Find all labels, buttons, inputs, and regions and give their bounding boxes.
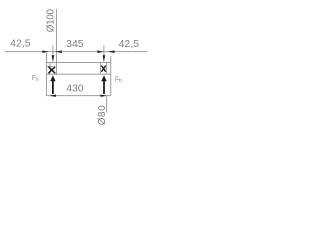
svg-text:345: 345: [66, 38, 84, 50]
force label Fb: [115, 77, 122, 84]
force arrow Fb (up): [101, 75, 106, 94]
bearing A cross X: [49, 67, 55, 73]
arrowhead 42,5-left pointing right: [42, 50, 48, 53]
svg-text:b: b: [119, 78, 122, 84]
dimension text 42,5 right: [119, 38, 140, 50]
bearing B cross X: [102, 66, 106, 71]
shaft right end face: [110, 56, 112, 96]
dimension text 42,5 left: [10, 38, 31, 50]
top dimension line: [5, 51, 148, 53]
label Ø100 (rotated vertical): [45, 9, 56, 33]
arrowhead 345 left pointing left: [55, 50, 62, 53]
force label Fa: [32, 75, 39, 82]
bearing A box left side: [49, 63, 51, 75]
svg-text:a: a: [36, 76, 39, 82]
extension line right bearing centre with down arrow: [103, 46, 106, 63]
bottom dimension line 430: [47, 95, 111, 97]
shaft top line: [47, 62, 111, 64]
dimension text 430: [66, 84, 83, 95]
extension line Ø80 leader below: [106, 96, 108, 113]
shaft bottom line: [47, 73, 111, 75]
extension line Ø100 leader / left bearing box right side: [55, 9, 57, 74]
svg-text:Ø80: Ø80: [97, 105, 108, 125]
svg-text:42,5: 42,5: [119, 38, 140, 50]
shaft shoulder stub left: [47, 66, 54, 68]
arrowhead 430 right pointing right: [100, 95, 107, 97]
label Ø80 (rotated vertical): [97, 105, 108, 125]
shaft left end face: [46, 53, 48, 96]
force arrow Fa (up): [50, 75, 55, 94]
svg-text:42,5: 42,5: [10, 38, 31, 50]
dimension text 345: [66, 38, 84, 50]
svg-text:Ø100: Ø100: [45, 9, 56, 33]
extension line left bearing centre with down arrow: [52, 46, 55, 63]
bearing B box left side: [99, 63, 101, 75]
arrowhead 430 left pointing left: [49, 95, 56, 97]
arrowhead 42,5-right pointing left: [108, 50, 115, 53]
svg-text:430: 430: [66, 84, 83, 95]
arrowhead 345 right pointing right: [97, 50, 104, 53]
bearing B box right side: [106, 63, 108, 75]
